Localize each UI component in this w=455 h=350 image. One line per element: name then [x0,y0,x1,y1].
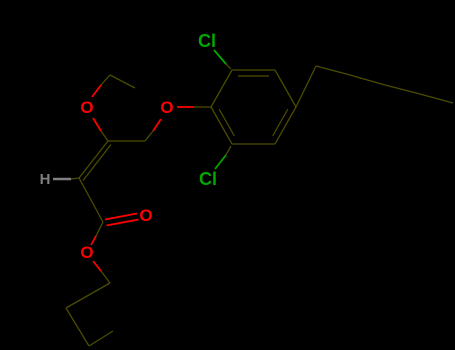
wire C1=O3 double bond line1 red [105,214,137,220]
wire C7-C8 [89,331,113,346]
wire O2-C5 red half [93,261,101,271]
benzene ring edge C3'-C4' [275,70,296,107]
wire C4-O4 olive half [145,131,153,141]
benzene ring edge C4'-C5' [275,107,296,144]
svg-text:O: O [139,206,152,225]
wire H-C2 olive half [71,178,79,179]
wire C6-C7 [66,308,89,346]
wire Cl-C2' green half [214,50,226,64]
wire CH2-CH3 ethyl [110,75,135,88]
wire C3-O1 olive half [101,131,108,141]
svg-text:Cl: Cl [199,169,217,189]
benzene ring edge C2'-C3' [232,69,275,71]
benzene ring edge C1'-C2' [211,70,232,107]
wire C3-C4 [108,140,145,142]
benzene ring inner aromatic line top [238,75,269,77]
wire O1-CH2 red half [92,85,101,97]
wire O2-C5 olive half [101,271,110,283]
svg-text:O: O [160,98,173,117]
svg-text:O: O [80,243,93,262]
wire O1-CH2 olive half [101,75,110,85]
wire C1-O2 red half [91,236,96,245]
svg-text:Cl: Cl [198,31,216,51]
wire C2=C3 double bond line1 [79,141,108,178]
wire O4-C1' olive half [194,106,211,108]
wire C2=C3 double bond line2 [83,145,111,181]
wire H-C2 gray half [53,178,71,180]
wire C1-O2 olive half [96,222,103,236]
benzene ring edge C5'-C6' [232,143,275,145]
wire para alkyl chain squished zigzag [316,66,453,103]
wire C5-C6 [66,283,110,308]
wire Cl-C6' olive half [226,146,231,155]
wire C1=O3 double bond line2 red [107,220,139,226]
wire C4-O4 red half [153,119,161,131]
svg-text:H: H [40,171,51,188]
wire C3-O1 red half [93,118,101,131]
benzene ring inner aromatic line left [219,109,234,136]
wire O4-C1' red half [177,106,194,108]
svg-text:O: O [80,98,93,117]
benzene ring edge C6'-C1' [211,107,232,144]
wire Cl-C6' green half [215,155,226,169]
wire C4'-chain first bond [296,66,316,107]
wire Cl-C2' olive half [226,64,231,69]
wire C2-C1 carbonyl bond [79,178,103,222]
benzene ring inner aromatic line right [273,109,288,136]
